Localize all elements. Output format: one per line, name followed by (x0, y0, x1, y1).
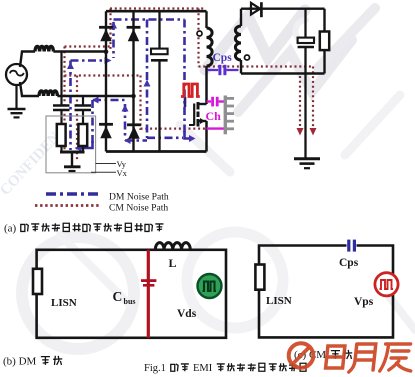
capacitor Cps (208, 69, 219, 71)
Vds switching waveform (red) (181, 84, 200, 97)
model c outer loop (259, 246, 393, 338)
diode D5 output (251, 7, 263, 9)
transformer secondary winding (235, 26, 241, 60)
wire tap to Cy1 (60, 52, 62, 105)
source Vds (green) (198, 274, 222, 298)
svg-text:bus: bus (124, 297, 136, 306)
bus cap branch top (158, 11, 160, 49)
wire primary to mosfet (205, 66, 208, 104)
wire AC to bottom line (20, 82, 39, 96)
wire tap to Cy2 (82, 96, 84, 105)
diode D2 (127, 26, 141, 29)
LISN impedance (c) (255, 265, 264, 290)
secondary polarity node (245, 55, 250, 60)
LISN box (46, 116, 96, 173)
DM noise path (blue dash-dot) (67, 20, 196, 152)
svg-text:(a): (a) (4, 223, 17, 235)
node Vy lead (96, 163, 116, 165)
inductor L (b) (155, 243, 190, 250)
svg-text:Cps: Cps (213, 52, 233, 64)
resistor R2 (LISN) (78, 124, 87, 146)
svg-text:Vds: Vds (177, 308, 197, 320)
wire AC to top line (20, 52, 35, 68)
earth ground output (294, 157, 320, 160)
resistor R1 (LISN) (57, 124, 66, 146)
node bridge ac1 (104, 49, 109, 54)
model b outer loop (37, 250, 226, 338)
wire bus to primary (205, 11, 207, 28)
CM noise path (red dotted) (65, 9, 317, 161)
legend DM line (46, 192, 98, 196)
bus cap branch bottom (158, 60, 160, 151)
svg-text:Fig.1: Fig.1 (144, 363, 166, 374)
wire diode to load (261, 7, 324, 9)
svg-text:LISN: LISN (51, 297, 77, 309)
svg-text:LISN: LISN (266, 295, 292, 307)
watermark brand characters (326, 344, 414, 372)
capacitor Cy2 (75, 104, 92, 107)
node bridge ac2 (131, 94, 136, 99)
legend CM line (35, 204, 100, 207)
bridge left leg (105, 11, 107, 151)
capacitor Cps (c) (347, 240, 350, 252)
wire L2 to bridge node (57, 95, 133, 97)
wire L1 to bridge node (53, 50, 106, 52)
watermark logo ring (289, 343, 314, 368)
diode D4 (127, 123, 141, 126)
transformer primary winding (207, 28, 213, 66)
top dc bus (106, 10, 207, 13)
diode D3 (99, 123, 113, 126)
svg-text:Vx: Vx (117, 168, 128, 178)
svg-text:Cps: Cps (339, 257, 359, 269)
heatsink (grounded) (224, 96, 227, 135)
wire cap to gnd (304, 47, 306, 158)
diode D1 (99, 26, 113, 29)
svg-text:(b) DM: (b) DM (3, 356, 37, 368)
ground under AC source (15, 85, 17, 109)
capacitor Cdc (electrolytic) (151, 49, 168, 55)
source Vps (red) (375, 273, 398, 296)
AC source Vac (6, 64, 27, 85)
svg-text:L: L (169, 256, 177, 270)
wire secondary bottom (240, 60, 242, 74)
capacitor Ch to heatsink (207, 100, 212, 102)
LISN impedance (b) (33, 269, 42, 294)
capacitor Cbus (red) (147, 250, 150, 338)
inductor L1 (line top) (35, 47, 53, 52)
wire to output cap (304, 9, 306, 38)
svg-text:Ch: Ch (206, 109, 222, 123)
wire secondary top (240, 9, 242, 26)
inductor L2 (line bottom) (39, 91, 57, 96)
capacitor Cy1 (53, 104, 70, 107)
gate drive tick (184, 97, 187, 107)
capacitor Cout (298, 38, 314, 43)
wire mosfet source to heatsink (207, 127, 225, 129)
wire R1,R2 join (60, 146, 62, 152)
svg-text:CM Noise Path: CM Noise Path (109, 203, 168, 214)
bridge right leg (132, 11, 134, 151)
ground LISN (71, 152, 73, 166)
bottom dc bus (106, 150, 207, 153)
svg-text:C: C (113, 289, 123, 304)
node Vx lead (91, 171, 116, 173)
MOSFET Q1 (198, 103, 207, 105)
load resistor RL (323, 9, 325, 32)
svg-text:Vps: Vps (354, 296, 374, 308)
svg-text:EMI: EMI (193, 363, 213, 374)
svg-text:DM Noise Path: DM Noise Path (109, 192, 169, 203)
primary polarity node (197, 31, 202, 36)
